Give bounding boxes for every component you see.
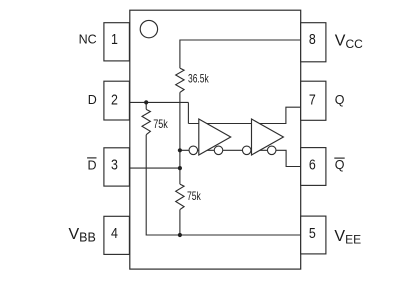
bubble B3 — [242, 146, 251, 155]
resistor R2 75k zigzag — [142, 109, 150, 134]
pin box 5 — [301, 216, 326, 254]
wire pin2 D with junction branch — [130, 101, 189, 103]
svg-text:75k: 75k — [187, 189, 202, 203]
junction dot VEE net — [178, 233, 182, 237]
wire R2 top lead — [145, 102, 147, 109]
wire pin3 Dbar — [130, 167, 180, 169]
op-amp U1 buffer — [199, 119, 231, 155]
pin box 4 — [104, 216, 129, 254]
pin box 2 — [104, 81, 129, 120]
pin box 3 — [104, 148, 129, 186]
svg-text:NC: NC — [79, 33, 97, 47]
svg-text:3: 3 — [111, 158, 118, 174]
junction dot pin3 net — [178, 166, 182, 170]
pin1 indicator circle — [140, 20, 157, 37]
resistor R3 75k zigzag — [176, 184, 184, 210]
svg-text:D: D — [88, 93, 97, 107]
svg-text:Q: Q — [335, 158, 345, 172]
op-amp U2 buffer — [252, 119, 284, 155]
pin box 1 — [104, 23, 129, 61]
bubble B1 — [189, 146, 198, 155]
svg-text:VEE: VEE — [334, 228, 361, 247]
resistor R1 36.5k zigzag — [176, 68, 184, 92]
svg-text:5: 5 — [309, 226, 316, 242]
junction dot bias node — [178, 148, 182, 152]
pin box 6 — [301, 148, 326, 186]
overline of Dbar — [87, 157, 96, 159]
wire step down to buffer input — [187, 102, 189, 123]
svg-text:4: 4 — [111, 226, 118, 242]
svg-text:75k: 75k — [153, 117, 168, 131]
wire pin8 VCC horizontal — [180, 40, 301, 68]
wire R2 bottom lead down to VEE wire — [146, 135, 301, 235]
svg-text:VCC: VCC — [335, 32, 363, 51]
svg-text:36.5k: 36.5k — [188, 72, 209, 86]
wire buffer input line to pin7 Q — [188, 107, 300, 123]
svg-text:D: D — [87, 158, 96, 172]
wire R1 bottom lead to bias node — [179, 92, 181, 150]
svg-text:7: 7 — [309, 92, 316, 108]
svg-text:Q: Q — [335, 93, 345, 107]
wire R3 top lead — [179, 168, 181, 184]
svg-text:2: 2 — [111, 92, 118, 108]
svg-text:6: 6 — [309, 158, 316, 174]
svg-text:1: 1 — [111, 32, 118, 48]
wire node link bias to pin3 net — [179, 150, 181, 168]
wire bias line through bubbles — [180, 150, 301, 166]
wire R3 bottom lead to VEE net — [179, 210, 181, 235]
svg-text:8: 8 — [309, 32, 316, 48]
pin box 8 — [301, 23, 326, 62]
overline of Qbar — [334, 157, 344, 159]
IC body — [130, 10, 301, 269]
bubble B2 — [214, 146, 223, 155]
pin box 7 — [301, 81, 326, 120]
bubble B4 — [267, 146, 276, 155]
svg-text:VBB: VBB — [69, 226, 96, 245]
junction dot pin2 net — [144, 100, 148, 104]
